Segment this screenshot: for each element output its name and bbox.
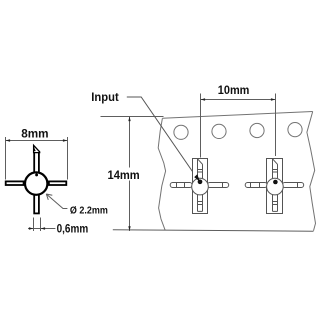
svg-text:Input: Input — [91, 92, 119, 104]
svg-text:0,6mm: 0,6mm — [57, 221, 89, 235]
svg-text:8mm: 8mm — [21, 127, 48, 141]
svg-text:10mm: 10mm — [218, 83, 250, 97]
svg-text:Ø 2.2mm: Ø 2.2mm — [70, 205, 108, 216]
svg-text:14mm: 14mm — [108, 168, 140, 182]
